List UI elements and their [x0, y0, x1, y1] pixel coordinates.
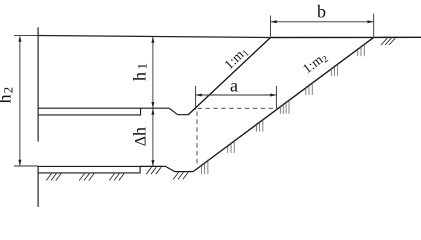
svg-text:a: a: [230, 76, 238, 96]
soil hatching on ground right of lower slope crest: [381, 38, 395, 45]
slope face hatch ticks group F: [331, 63, 337, 76]
svg-text:Δh: Δh: [130, 127, 150, 146]
soil hatching under pit bottom line group 4: [146, 167, 161, 174]
pit bottom line right of lower pipe: [140, 165, 165, 167]
dimension a line with extension lines: [196, 86, 277, 110]
dimension b line with extension lines: [271, 14, 374, 37]
dashed vertical projection line: [196, 112, 198, 166]
dimension h1 line: [151, 37, 154, 109]
svg-text:h2: h2: [0, 87, 16, 104]
upper bench sump ditch: [169, 108, 188, 115]
berm top surface (between slope crests): [271, 36, 374, 38]
svg-text:h1: h1: [129, 63, 149, 81]
upper bench line right of pipe: [141, 107, 170, 109]
slope face hatch ticks group G (near crest): [358, 43, 364, 56]
soil hatching under lower pipe group 2: [79, 174, 94, 181]
ground surface right of lower slope crest: [374, 36, 421, 38]
soil hatching under lower pipe group 1: [46, 174, 61, 181]
slope face hatch ticks group D (four ticks): [280, 99, 289, 114]
ground surface left (top of wall to crest of upper slope): [38, 36, 271, 38]
left vertical riser pipe (lower section): [37, 166, 39, 207]
upper slope 1:m1: [188, 38, 270, 115]
slope face hatch ticks group E: [306, 82, 312, 95]
slope face hatch ticks group A (near pit bottom): [202, 160, 208, 175]
soil hatching under sump ditch group 5: [173, 172, 188, 179]
lower slope 1:m2: [193, 37, 373, 171]
svg-text:b: b: [317, 2, 326, 22]
dimension h2 line: [14, 36, 38, 166]
pit bottom sump ditch: [166, 166, 194, 171]
slope face hatch ticks group B: [228, 140, 234, 153]
soil hatching under lower pipe group 3: [109, 174, 124, 181]
lower header pipe (double-line bar at pit bottom): [38, 166, 140, 173]
upper header pipe (double-line bar at first bench): [38, 108, 141, 115]
dimension delta-h line: [151, 108, 154, 166]
dashed bench level line: [198, 107, 278, 109]
slope face hatch ticks group C: [257, 119, 263, 132]
left vertical riser pipe (upper section): [37, 27, 39, 141]
